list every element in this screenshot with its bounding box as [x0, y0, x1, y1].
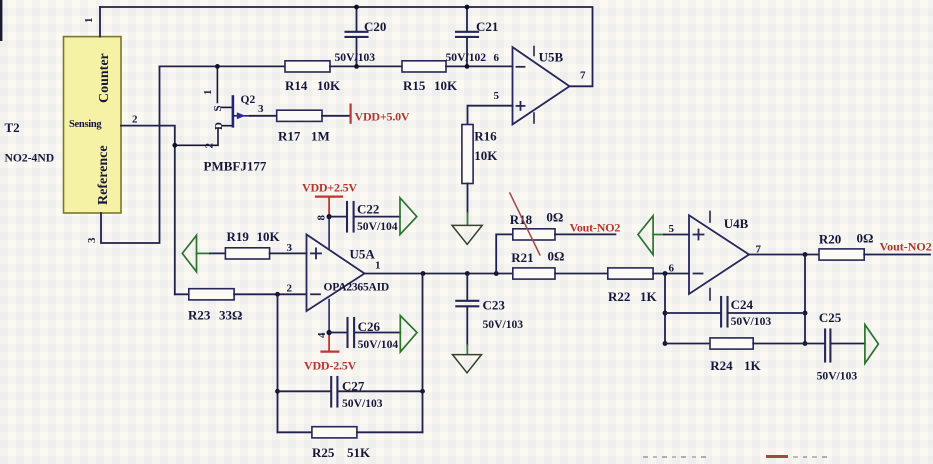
svg-text:C22: C22: [357, 202, 379, 217]
wire R25 row: [278, 431, 312, 433]
svg-text:R24: R24: [710, 358, 733, 373]
svg-text:10K: 10K: [434, 78, 458, 93]
node C24 left: [663, 311, 668, 316]
wire U5B pin5 from R16: [468, 106, 513, 125]
svg-text:Vout-NO2: Vout-NO2: [880, 240, 932, 254]
svg-text:Q2: Q2: [241, 94, 256, 106]
power bar VDD+5.0V: [350, 105, 352, 123]
wire pin1 vertical: [99, 7, 101, 37]
wire pin3 to riser: [101, 66, 160, 243]
node C27 left: [275, 389, 280, 394]
wire feedback right drop: [422, 274, 424, 433]
U5B power stub bottom: [533, 113, 535, 123]
svg-text:33Ω: 33Ω: [219, 308, 242, 323]
svg-text:10K: 10K: [474, 148, 498, 163]
svg-text:0Ω: 0Ω: [546, 210, 563, 225]
wire output feedback drop: [804, 255, 806, 344]
wire port to U4B pin5: [664, 234, 689, 236]
op-amp U5B: [494, 47, 587, 125]
svg-text:Vout-NO2: Vout-NO2: [570, 221, 621, 235]
capacitor C25: [805, 310, 865, 383]
input port arrow U4B pin5: [638, 216, 653, 255]
U4B power stub top: [709, 212, 711, 223]
svg-text:R17: R17: [278, 129, 301, 144]
capacitor C21: [446, 7, 499, 66]
sensor block T2 (Counter/Sensing/Reference): [64, 37, 122, 213]
U5A pin 4 stub: [328, 300, 330, 333]
svg-text:R20: R20: [819, 232, 841, 247]
svg-text:50V/103: 50V/103: [483, 318, 524, 331]
node C26 junction: [327, 330, 332, 335]
resistor R14 10K: [285, 61, 330, 72]
resistor R19 10K: [225, 248, 269, 259]
svg-text:2: 2: [287, 283, 293, 295]
wire branch to R23: [175, 293, 189, 295]
node pin2 feedback branch: [275, 292, 280, 297]
wire pin6 feedback drop: [664, 274, 666, 344]
U5A pin 8 stub: [328, 217, 330, 248]
wire R19 to U5A pin3: [270, 252, 307, 254]
svg-text:C24: C24: [731, 297, 754, 312]
U4B power stub bottom: [709, 289, 711, 301]
wire feedback left drop: [277, 294, 279, 432]
node C22 junction: [327, 214, 332, 219]
svg-text:5: 5: [669, 223, 675, 235]
node output/C27 branch: [421, 271, 426, 276]
wire R14 to R15: [330, 65, 402, 67]
svg-text:50V/102: 50V/102: [446, 51, 487, 64]
Q2 drain lead: [222, 125, 232, 127]
svg-text:OPA2365AID: OPA2365AID: [324, 282, 390, 294]
node C21 top: [465, 5, 470, 10]
ground under C23: [453, 355, 482, 373]
power VDD+2.5V: [302, 180, 357, 216]
input port arrow (left, to R19): [182, 235, 196, 271]
svg-text:50V/103: 50V/103: [335, 51, 376, 64]
ground under R16: [452, 225, 482, 244]
svg-text:R21: R21: [511, 250, 533, 265]
resistor R15 10K: [402, 61, 446, 72]
wire top feedback rail: [100, 7, 593, 86]
node C20 bottom: [354, 64, 359, 69]
node C24 right: [803, 311, 808, 316]
wire R15 to U5B pin6: [446, 65, 513, 67]
capacitor C22: [329, 202, 400, 233]
svg-text:VDD-2.5V: VDD-2.5V: [304, 359, 357, 373]
svg-text:Sensing: Sensing: [69, 119, 102, 130]
svg-text:R14: R14: [285, 78, 308, 93]
svg-text:R19: R19: [227, 229, 250, 244]
svg-text:PMBFJ177: PMBFJ177: [204, 159, 267, 174]
svg-text:Reference: Reference: [96, 145, 111, 205]
svg-text:C27: C27: [342, 378, 365, 393]
Q2 channel bar: [232, 97, 235, 127]
node C21 bottom: [465, 64, 470, 69]
wire R21 to R22: [555, 273, 608, 275]
watermark remnant bottom: [643, 455, 827, 458]
svg-text:R25: R25: [312, 445, 335, 460]
wire R24 row: [665, 343, 710, 345]
node R24 left: [663, 341, 668, 346]
svg-text:C26: C26: [358, 319, 381, 334]
node R24 right / C25: [803, 341, 808, 346]
svg-text:0Ω: 0Ω: [857, 231, 874, 246]
svg-text:Counter: Counter: [97, 53, 112, 103]
svg-text:S: S: [212, 105, 224, 111]
svg-text:R23: R23: [188, 308, 211, 323]
resistor R17 1M: [277, 110, 322, 121]
svg-text:C23: C23: [483, 298, 506, 313]
node output/R18 branch: [494, 271, 499, 276]
svg-text:1K: 1K: [744, 358, 762, 373]
wire R23 to U5A pin2: [234, 293, 306, 295]
svg-text:50V/104: 50V/104: [357, 220, 398, 233]
scan edge artifact top-left: [0, 0, 2, 41]
transistor Q2 PMBFJ177: [172, 66, 266, 173]
svg-text:50V/103: 50V/103: [817, 370, 858, 383]
svg-text:51K: 51K: [347, 445, 371, 460]
svg-text:R15: R15: [403, 78, 426, 93]
wire port to R19: [210, 252, 225, 254]
svg-text:1: 1: [202, 90, 214, 96]
op-amp U4B: [689, 212, 762, 301]
svg-text:3: 3: [258, 103, 264, 115]
wire Q2 gate to R17: [250, 115, 277, 117]
svg-text:NO2-4ND: NO2-4ND: [5, 152, 55, 165]
output port arrow after C26: [400, 316, 417, 352]
svg-text:3: 3: [287, 242, 293, 254]
wire R17 to power: [322, 115, 350, 117]
resistor R22 1K: [608, 268, 653, 279]
node output/C23 branch: [465, 271, 470, 276]
node C20 top: [354, 5, 359, 10]
Q2 source lead: [216, 66, 218, 102]
wire R16 to ground: [467, 184, 469, 214]
svg-text:1: 1: [83, 18, 95, 24]
no-fit slash over R18: [510, 193, 540, 255]
svg-text:U5A: U5A: [350, 247, 376, 262]
svg-text:2: 2: [204, 143, 216, 149]
wire pin2 to down-branch: [121, 126, 175, 295]
op-amp U5A OPA2365AID: [307, 215, 390, 339]
resistor R23 33ohm: [189, 289, 234, 300]
node output branch: [803, 252, 808, 257]
node Q2 source tap: [215, 64, 220, 69]
node Q2 drain junction: [172, 143, 177, 148]
power VDD-2.5V: [304, 333, 357, 373]
resistor R25 51K: [312, 427, 357, 438]
resistor R18 0ohm (not fitted): [513, 229, 555, 240]
svg-text:C20: C20: [364, 19, 386, 34]
svg-text:1: 1: [375, 260, 381, 272]
wire riser to R18: [496, 234, 513, 273]
svg-text:10K: 10K: [317, 78, 341, 93]
node C27 right: [420, 389, 425, 394]
svg-text:R16: R16: [474, 129, 497, 144]
svg-text:U4B: U4B: [724, 216, 749, 231]
wire U5A output net: [365, 273, 513, 275]
svg-text:VDD+5.0V: VDD+5.0V: [355, 110, 410, 124]
output port arrow after C22: [400, 198, 417, 235]
Q2 gate lead with arrow: [234, 115, 250, 117]
svg-text:1M: 1M: [311, 129, 330, 144]
svg-text:2: 2: [132, 114, 138, 126]
capacitor C20: [335, 7, 387, 66]
svg-text:6: 6: [494, 52, 500, 64]
capacitor C24: [665, 297, 805, 328]
wire R20 to edge: [864, 254, 930, 256]
resistor R24 1K: [710, 338, 753, 349]
svg-text:T2: T2: [5, 120, 20, 135]
resistor R16 10K (vertical): [462, 125, 473, 184]
svg-text:50V/103: 50V/103: [342, 397, 383, 410]
svg-text:C21: C21: [476, 19, 498, 34]
U5B power stub top: [533, 47, 535, 56]
svg-text:R22: R22: [608, 289, 630, 304]
svg-text:1K: 1K: [640, 289, 658, 304]
svg-text:50V/103: 50V/103: [731, 315, 772, 328]
capacitor C27: [278, 377, 423, 410]
wire U4B output: [749, 254, 819, 256]
resistor R21 0ohm: [513, 268, 555, 279]
svg-text:U5B: U5B: [539, 50, 564, 65]
svg-text:10K: 10K: [257, 229, 281, 244]
svg-text:0Ω: 0Ω: [548, 249, 565, 264]
capacitor C23: [456, 274, 523, 346]
capacitor C26: [329, 318, 400, 351]
resistor R20 0ohm: [819, 249, 864, 260]
output port arrow after C25: [865, 325, 879, 364]
svg-text:3: 3: [86, 237, 98, 243]
svg-text:6: 6: [669, 263, 675, 275]
wire R22 to U4B pin6: [653, 273, 689, 275]
svg-text:50V/104: 50V/104: [358, 338, 399, 351]
svg-text:5: 5: [494, 90, 500, 102]
svg-text:VDD+2.5V: VDD+2.5V: [302, 180, 357, 194]
wire R14 input net: [160, 65, 286, 67]
node pin6: [663, 271, 668, 276]
svg-text:C25: C25: [819, 310, 842, 325]
svg-text:4: 4: [316, 332, 328, 338]
svg-text:8: 8: [316, 215, 328, 221]
svg-text:D: D: [213, 122, 225, 130]
wire R18 to net label: [555, 233, 615, 235]
svg-text:7: 7: [580, 70, 586, 82]
svg-text:R18: R18: [510, 212, 533, 227]
